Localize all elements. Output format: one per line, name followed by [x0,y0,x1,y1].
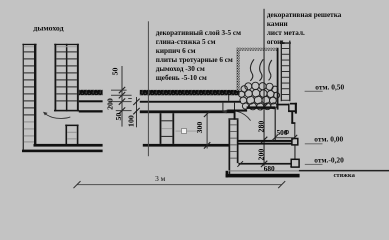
dim extension lines [111,90,132,111]
svg-text:дымоход -30 см: дымоход -30 см [156,65,205,73]
grate ladder: rungs [282,48,289,101]
pillar under right wall: gray rungs [67,131,77,134]
svg-text:декоративная решетка: декоративная решетка [267,11,342,19]
svg-text:50: 50 [114,113,123,121]
band left upturn [226,171,228,178]
metal sheet floor band [238,140,292,142]
grate ladder: rails [281,44,282,101]
svg-text:дымоход: дымоход [33,23,63,32]
chimney left wall: left rail [23,44,24,150]
right wall thin vertical [294,123,295,138]
grate ladder: finial stubs [281,41,282,43]
vertical dimension chain line [122,66,123,127]
lower block [291,159,299,167]
white square marker [182,129,187,134]
chimney right wall: rail 3 [77,44,79,112]
dim ticks [119,87,125,114]
pillar under right wall: right rail [77,125,79,145]
svg-text:стяжка: стяжка [334,172,356,179]
right wall top cap [290,103,297,105]
right wall vertical 2 [291,112,293,123]
svg-text:50: 50 [110,68,119,76]
second dim line (100) [136,97,137,127]
right wall small step [291,122,295,124]
paving slab line / channel top (left block) [79,110,103,112]
chimney right wall: bottom cap [54,110,79,112]
flame wisp 1 [250,59,254,81]
pillar under right wall: top cap [65,125,78,127]
clay screed line (left block) [79,100,103,102]
chimney left wall: top cap [22,44,36,45]
brick joint course1 [228,95,229,101]
stone platform line [247,106,276,109]
fire area right boundary [277,48,279,110]
svg-text:200: 200 [106,98,115,110]
chimney right wall: brick course rungs [56,51,77,101]
grate ladder: top cap [280,42,291,43]
long leader / dim line at fire pit [264,9,265,166]
svg-text:200: 200 [257,149,266,161]
middle support pillar: right rail [172,113,174,144]
corbel block [292,139,298,145]
ground screed line right of pit [299,170,389,172]
chimney left wall: brick course rungs [24,51,34,115]
decorative layer crosshatch band (right block) [140,90,240,95]
clay screed line (right block) [140,101,241,103]
bottom dimension 3 m line [77,183,282,186]
flame wisp 2 [260,59,264,81]
grate pedestal top [277,104,290,106]
svg-text:500: 500 [277,128,288,137]
svg-text:огонь: огонь [267,38,285,46]
middle support pillar: left rail [160,113,162,144]
svg-text:лист метал.: лист метал. [267,29,305,37]
pit left wall top line [227,110,247,112]
svg-text:отм.-0,20: отм.-0,20 [314,155,344,164]
pillar under right wall: left rail [66,125,68,145]
svg-text:декоративный слой 3-5 см: декоративный слой 3-5 см [156,29,241,37]
chimney right wall: top cap [54,44,79,45]
pedestal step vertical [288,104,289,112]
pit interior bottom line (680 dim line) [238,163,293,165]
stones (kamni) [239,82,280,110]
pit bottom foundation band [226,174,300,178]
pit left wall ladder: rungs [230,124,237,158]
ticks on pit dim line [261,104,267,167]
right text block [267,11,342,46]
middle support pillar: rungs [161,120,172,121]
long leader line of layer text block [148,21,149,156]
interior left wall line of pit cavity [275,109,276,140]
elevation mark 0.00 underline [305,143,323,144]
small circle detail on wall [285,131,288,134]
chimney right wall: rail 2 (middle) [66,44,68,112]
svg-text:плиты тротуарные 6 см: плиты тротуарные 6 см [156,56,233,64]
flue channel bottom line (middle span) [143,144,229,147]
gray slider line in channel [176,131,201,132]
right wall outer vertical [295,103,297,114]
pedestal shelf [288,110,297,112]
pit left wall ladder: rails [229,120,231,174]
svg-text:глина-стяжка 5 см: глина-стяжка 5 см [156,38,216,46]
brick joint course2 b [234,103,235,111]
decorative grate: dotted top row [237,48,278,51]
gray ground level line across pit [229,170,300,171]
layers text block [156,29,241,82]
chimney right wall: gray underline of cap [56,45,77,48]
svg-text:отм. 0,00: отм. 0,00 [314,134,343,143]
svg-text:щебень -5-10 см: щебень -5-10 см [156,74,207,82]
svg-text:отм. 0,50: отм. 0,50 [315,83,344,92]
flame wisp 3 [269,60,272,80]
thin vertical below corbel [294,145,295,159]
dim 500 line [275,136,295,139]
elevation mark -0.20 underline [305,164,323,165]
channel top thick line (right block) [140,110,236,113]
chimney left wall: right rail [34,44,36,145]
channel top step down to pit wall [234,110,236,119]
brick joint course2 a [222,103,223,111]
dim line 300 (channel height) [207,113,208,149]
chimney left wall: gray underline of cap [24,45,34,48]
svg-text:680: 680 [264,164,275,173]
flow arrow at fire pit [225,111,251,121]
svg-text:280: 280 [257,121,266,133]
flue channel bottom line (left span) [34,144,103,147]
chimney foundation slab line [22,150,103,153]
decorative layer crosshatch band (left block) [79,90,103,95]
svg-text:300: 300 [195,122,204,134]
elevation mark 0.50 underline [305,91,323,92]
pit left wall ladder: cap [228,118,238,119]
chimney right wall: rail 1 [55,44,57,112]
svg-text:камни: камни [267,20,288,28]
svg-text:100: 100 [126,115,135,127]
svg-text:3 м: 3 м [155,174,166,183]
svg-text:кирпич 6 см: кирпич 6 см [156,47,196,55]
flow arrow in chimney [44,113,70,119]
decorative grate: dotted left column [236,48,240,91]
